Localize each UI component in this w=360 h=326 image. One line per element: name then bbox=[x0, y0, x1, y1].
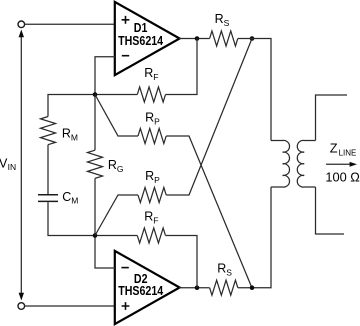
op-amp D2 minus sign bbox=[121, 267, 128, 269]
transformer primary winding bbox=[271, 140, 290, 187]
resistor R_P (top) bbox=[138, 129, 166, 144]
node R_S bottom output junction bbox=[250, 285, 255, 290]
resistor R_G bbox=[88, 150, 103, 178]
wire node A to R_M branch bbox=[48, 95, 95, 117]
op-amp D1 bbox=[115, 2, 180, 75]
resistor R_F (top) bbox=[137, 87, 165, 102]
wire D1 inverting input stub bbox=[95, 57, 115, 95]
resistor R_S (bottom) bbox=[210, 280, 238, 295]
node R_S top output junction bbox=[250, 36, 255, 41]
svg-text:R: R bbox=[144, 66, 153, 80]
resistor R_M bbox=[41, 117, 56, 145]
op-amp D2 plus sign bbox=[122, 302, 130, 310]
wire R_F bottom to node B bbox=[95, 235, 137, 237]
wire bottom input to D2 + bbox=[24, 305, 115, 307]
svg-text:THS6214: THS6214 bbox=[118, 33, 163, 48]
wire secondary bottom lead bbox=[316, 187, 345, 234]
svg-text:S: S bbox=[226, 267, 232, 277]
wire R_P top cross-coupling diagonal to bottom R_S node bbox=[166, 136, 252, 288]
wire R_G to node B bbox=[94, 178, 96, 235]
wire feedback bottom (output to R_F) bbox=[166, 236, 198, 288]
wire D1 output bbox=[179, 38, 210, 40]
wire R_M to C_M bbox=[47, 145, 49, 194]
svg-text:THS6214: THS6214 bbox=[118, 283, 163, 298]
wire R_P bottom cross-coupling diagonal to top R_S node bbox=[166, 39, 252, 196]
terminal IN+ (top-left open circle) bbox=[18, 21, 25, 28]
op-amp D1 minus sign bbox=[122, 55, 129, 57]
svg-text:Z: Z bbox=[330, 141, 338, 156]
resistor R_P (bottom) bbox=[138, 188, 166, 203]
svg-text:100 Ω: 100 Ω bbox=[325, 169, 360, 184]
svg-text:S: S bbox=[224, 18, 230, 28]
svg-text:IN: IN bbox=[8, 162, 17, 172]
node D2 output junction bbox=[195, 285, 200, 290]
wire top input to D1 + bbox=[24, 23, 115, 25]
svg-text:R: R bbox=[145, 110, 154, 124]
wire R_S top to transformer primary top bbox=[238, 39, 271, 141]
svg-text:P: P bbox=[154, 175, 160, 185]
svg-text:G: G bbox=[117, 164, 124, 174]
wire R_F top to node A bbox=[95, 94, 137, 96]
svg-text:F: F bbox=[153, 215, 158, 225]
wire feedback top (output to R_F) bbox=[166, 39, 198, 95]
wire D2 inverting input stub bbox=[95, 236, 115, 269]
svg-text:P: P bbox=[154, 116, 160, 126]
node B bbox=[93, 233, 98, 238]
svg-text:LINE: LINE bbox=[339, 149, 357, 158]
wire C_M to node B bbox=[48, 202, 95, 235]
source V_IN double-headed arrow line bbox=[20, 34, 22, 296]
svg-text:R: R bbox=[215, 12, 224, 26]
svg-text:M: M bbox=[71, 132, 78, 142]
svg-text:F: F bbox=[153, 72, 158, 82]
node D1 output junction bbox=[195, 36, 200, 41]
svg-text:R: R bbox=[217, 261, 226, 275]
wire transformer primary bottom lead bbox=[238, 187, 271, 288]
svg-text:C: C bbox=[62, 190, 71, 204]
resistor R_S (top) bbox=[210, 31, 238, 46]
svg-text:R: R bbox=[144, 209, 153, 223]
svg-text:R: R bbox=[145, 169, 154, 183]
wire D2 output bbox=[179, 287, 210, 289]
op-amp D1 plus sign bbox=[122, 16, 130, 24]
node A bbox=[93, 92, 98, 97]
wire node A to R_P top bbox=[95, 95, 138, 137]
svg-text:R: R bbox=[108, 158, 117, 172]
source V_IN bottom arrowhead bbox=[19, 293, 24, 301]
capacitor C_M bbox=[38, 195, 58, 202]
svg-text:R: R bbox=[62, 126, 71, 140]
wire secondary top lead bbox=[316, 95, 348, 141]
terminal IN- (bottom-left open circle) bbox=[18, 303, 25, 310]
wire node A to R_G bbox=[94, 95, 96, 151]
wire node B to R_P bottom bbox=[95, 195, 138, 236]
arrow Z_LINE direction bbox=[326, 163, 350, 165]
resistor R_F (bottom) bbox=[137, 228, 165, 243]
source V_IN top arrowhead bbox=[19, 30, 24, 38]
op-amp D2 bbox=[115, 251, 180, 324]
svg-text:M: M bbox=[71, 196, 78, 206]
transformer secondary winding bbox=[297, 140, 315, 187]
